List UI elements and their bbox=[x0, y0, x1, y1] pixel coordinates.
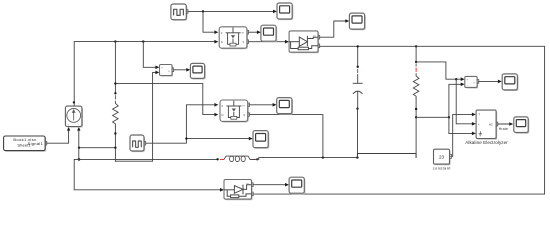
wire net7: resistor bottom across to voltage measurement V1 lower input bbox=[115, 72, 157, 161]
svg-text:+: + bbox=[478, 122, 480, 126]
node J24 mid rail tap on resistor column bbox=[114, 82, 116, 84]
red port dash above resistor R1 bbox=[114, 96, 116, 99]
svg-text:H2: H2 bbox=[489, 122, 493, 126]
wire net20: tap down to electrolyzer plus port bbox=[456, 79, 472, 124]
scope S3 bbox=[253, 131, 269, 149]
wire net34: diode D3 m output to scope S4 bbox=[252, 184, 287, 186]
wire net26: PWM generator P2 to MOSFET U2 gate and scope S3 bbox=[144, 105, 214, 143]
wire net28: MOSFET U1 m output to scope S1a bbox=[247, 31, 259, 33]
node J1 junction on pulse wire bbox=[202, 10, 204, 12]
wire net12: lower rail from inductor to right side bbox=[250, 154, 416, 160]
diode D3 m output tab bbox=[252, 183, 254, 187]
wire net5: resistor R1 lower lead bbox=[114, 126, 116, 161]
svg-text:-: - bbox=[467, 85, 468, 88]
scope S1b bbox=[277, 3, 293, 20]
voltage measurement V2 bbox=[465, 76, 478, 88]
svg-text:D: D bbox=[221, 40, 223, 44]
node J16 top rail to capacitor bbox=[357, 45, 359, 47]
node J4 current source top port dot bbox=[73, 101, 75, 103]
wire net6: branch rail between current source column and resistor column bbox=[79, 147, 115, 149]
red port dash left of inductor L1 bbox=[220, 158, 223, 160]
arrow into diode D3 bbox=[220, 188, 224, 192]
diode D3 bbox=[224, 180, 253, 201]
capacitor C1 plates bbox=[353, 75, 362, 109]
red port dash right of inductor L1 bbox=[252, 158, 255, 160]
arrow into scope S1a bbox=[257, 30, 261, 34]
node J2 top rail to resistor R1 bbox=[114, 40, 116, 42]
wire net14: capacitor C1 upper lead from top rail bbox=[357, 46, 359, 66]
arrow into MOSFET U1 gate bbox=[214, 30, 218, 34]
arrow into electrolyzer plus port bbox=[472, 122, 476, 126]
arrow into V1 input2 bbox=[155, 71, 159, 75]
wire net18: resistor R2 lower lead down to rail bbox=[415, 98, 417, 157]
node J3 top rail to voltage measurement V1 bbox=[142, 40, 144, 42]
arrow into scope S5 bbox=[273, 103, 277, 107]
wire net29: MOSFET U1 source to diode D1 input bbox=[247, 41, 287, 43]
node J10 inductor left port dot bbox=[216, 158, 218, 160]
svg-text:S: S bbox=[243, 113, 245, 117]
arrow into electrolyzer ground port bbox=[472, 132, 476, 136]
wire net32: MOSFET U2 m output to scope S5 bbox=[248, 104, 275, 106]
diode D1 output tab bbox=[318, 44, 320, 48]
node J14 capacitor top port dot bbox=[357, 66, 359, 68]
MOSFET U2 S output tab bbox=[248, 113, 250, 117]
arrow into diode D1 bbox=[285, 40, 289, 44]
node J15 capacitor bottom port dot bbox=[356, 108, 358, 110]
wire net25: V2 output to scope S7 bbox=[477, 80, 500, 82]
wire net10: bottom left loop down to bottom rail bbox=[74, 159, 222, 189]
wire net17: resistor R2 upper lead bbox=[415, 46, 417, 62]
from-spreadsheet block Book1 bbox=[4, 136, 47, 152]
wire net2: top rail from current source I1 to MOSFET U1 drain bbox=[74, 42, 214, 107]
svg-text:constant: constant bbox=[433, 167, 452, 171]
wire net31: diode D1 main output jog to outer rail bbox=[318, 45, 320, 48]
resistor R1 zigzag bbox=[113, 101, 119, 126]
controlled current source I1 bbox=[65, 106, 83, 128]
diode D1 bbox=[289, 31, 319, 53]
svg-text:D: D bbox=[222, 113, 224, 117]
V2 output tab bbox=[477, 80, 479, 84]
wire net4: resistor R1 upper lead bbox=[114, 42, 116, 94]
node J11 inductor right port dot bbox=[256, 158, 258, 160]
scope S4 bbox=[289, 177, 305, 194]
alkaline electrolyzer U3 bbox=[476, 110, 497, 139]
arrow into scope S2 bbox=[345, 19, 349, 23]
resistor R2 zigzag bbox=[413, 64, 419, 99]
wire net27: mid rail from resistor R1 top to MOSFET U2 drain bbox=[115, 84, 213, 115]
PWM generator P2 bbox=[130, 135, 145, 152]
MOSFET U1 bbox=[219, 27, 248, 50]
arrow into MOSFET U2 drain bbox=[214, 113, 218, 117]
constant block value 23 bbox=[434, 149, 452, 165]
arrow into V2 input2 bbox=[461, 83, 465, 87]
inductor L1 coil bbox=[224, 156, 250, 161]
pulse generator P1 bbox=[171, 4, 188, 21]
arrow up into current source right port bbox=[77, 127, 80, 131]
scope S2 bbox=[349, 13, 365, 30]
scope S7 bbox=[502, 74, 518, 91]
svg-text:S: S bbox=[242, 40, 244, 44]
svg-text:T: T bbox=[478, 113, 480, 117]
node J8 bbox=[114, 147, 116, 149]
node J19 resistor R2 bottom port dot bbox=[415, 108, 417, 110]
node J12 MOSFET U2 source column joins lower rail bbox=[322, 156, 324, 158]
svg-text:-: - bbox=[162, 73, 163, 76]
node J21 V2 input tap dot bbox=[455, 78, 457, 80]
arrow up into current source left port bbox=[67, 127, 70, 131]
node J9 bbox=[78, 158, 81, 161]
arrow into V1 input1 bbox=[155, 66, 159, 70]
scope S5 bbox=[277, 98, 293, 115]
scope S1a bbox=[261, 25, 277, 42]
wire net3: V1 top input from top rail bbox=[143, 42, 157, 68]
Book1 block output tab bbox=[45, 141, 47, 145]
wire net24: electrolyzer H2 output to scope S8 bbox=[496, 123, 511, 125]
arrow into scope S8 bbox=[509, 122, 513, 126]
arrow into MOSFET U2 gate bbox=[214, 103, 218, 107]
svg-text:Sheet1: Sheet1 bbox=[17, 143, 31, 148]
diode D3 output tab bbox=[252, 192, 254, 196]
arrow into electrolyzer T port bbox=[472, 113, 476, 117]
scope S8 bbox=[514, 117, 530, 134]
wire net30: diode D1 m output up to scope S2 bbox=[318, 21, 347, 37]
wire net9: current source bottom return column bbox=[78, 130, 80, 160]
ground pin glyph inside electrolyzer bbox=[479, 131, 482, 136]
wire net33: V1 output to scope S6 bbox=[172, 69, 188, 71]
wire net8: Book1 spreadsheet block to current source control input bbox=[45, 130, 68, 144]
arrow into scope S4 bbox=[285, 183, 289, 187]
node J7 bbox=[78, 147, 80, 149]
wire net16: output rail right side big loop: diode D1 out to bottom right and diode D3 out bbox=[252, 46, 545, 194]
node J18 resistor R2 top branch dot bbox=[415, 61, 417, 63]
node J23 gate wire to scope branch bbox=[185, 137, 187, 139]
V1 output tab bbox=[172, 68, 174, 72]
node J17 top rail to resistor R2 bbox=[415, 45, 417, 47]
MOSFET U1 S output tab bbox=[247, 40, 249, 44]
wire net19: branch from resistor R2 top to voltage measurement V2 and electrolyzer plus bbox=[416, 62, 463, 79]
INPUT PORT ARROWS bbox=[67, 10, 513, 192]
arrow into MOSFET U1 drain bbox=[214, 40, 218, 44]
MOSFET U1 m output tab bbox=[247, 30, 249, 34]
MOSFET U2 bbox=[220, 100, 249, 123]
arrow into V2 input1 bbox=[461, 77, 465, 81]
node J5 resistor R1 top port dot bbox=[114, 92, 116, 94]
red port dash above capacitor C1 bbox=[357, 69, 359, 72]
wire net22: rail between resistor R2 column and ground column bbox=[416, 116, 449, 118]
MOSFET U2 m output tab bbox=[248, 103, 250, 107]
wire net23: constant block to electrolyzer T port bbox=[450, 114, 472, 156]
wire net1: pulse generator P1 output to gate of MOSFET U1 and Scope S1b bbox=[186, 11, 274, 32]
wire net15: capacitor C1 lower lead bbox=[357, 109, 359, 158]
scope S6 bbox=[190, 63, 205, 79]
voltage measurement V1 bbox=[160, 65, 174, 77]
node J22 ground column to resistor rail bbox=[448, 116, 450, 118]
arrow into scope S6 bbox=[186, 68, 190, 72]
svg-text:23: 23 bbox=[439, 155, 445, 160]
node J6 resistor R1 bottom port dot bbox=[114, 132, 116, 134]
wire net11: main lower rail to inductor L1 bbox=[79, 158, 218, 160]
node J20 resistor R2 column to ground rail branch bbox=[415, 116, 417, 118]
pulse generator P1 output tab bbox=[186, 10, 188, 14]
arrow into scope S1b bbox=[273, 10, 277, 14]
electrolyzer H2 output tab bbox=[496, 122, 498, 126]
svg-text:Hrate: Hrate bbox=[499, 127, 508, 131]
svg-text:Alkaline Electrolyzer: Alkaline Electrolyzer bbox=[465, 140, 508, 145]
arrow into scope S7 bbox=[498, 80, 502, 84]
diode D1 m output tab bbox=[318, 35, 320, 39]
wire net13: MOSFET U2 source wire down to rail bbox=[248, 115, 323, 158]
PWM generator P2 output tab bbox=[144, 141, 146, 145]
node J13 capacitor C1 column joins lower rail bbox=[356, 156, 358, 158]
wire net21: ground column to V2 lower input and electrolyzer ground port bbox=[449, 84, 463, 133]
arrow into scope S3 bbox=[249, 137, 253, 141]
red port dash above resistor R2 bbox=[415, 68, 417, 71]
